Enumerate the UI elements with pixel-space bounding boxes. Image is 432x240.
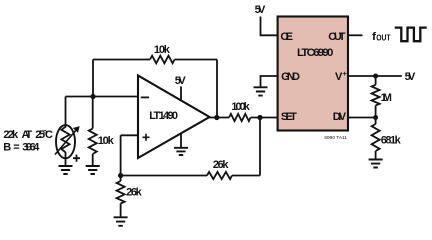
svg-text:=: = — [13, 142, 19, 154]
svg-text:SET: SET — [281, 111, 297, 123]
svg-text:100k: 100k — [231, 101, 250, 113]
svg-text:5V: 5V — [175, 75, 187, 87]
svg-text:5V: 5V — [405, 71, 416, 83]
svg-text:26k: 26k — [126, 187, 143, 199]
svg-text:1M: 1M — [381, 92, 392, 104]
svg-text:25°C: 25°C — [35, 129, 53, 141]
svg-text:OUT: OUT — [328, 31, 345, 43]
svg-text:10k: 10k — [154, 44, 171, 56]
svg-text:B: B — [3, 142, 11, 154]
svg-text:3964: 3964 — [22, 142, 40, 154]
svg-text:GND: GND — [281, 71, 300, 83]
svg-text:+: + — [343, 69, 348, 78]
svg-text:22k: 22k — [3, 129, 19, 141]
svg-text:AT: AT — [22, 129, 33, 141]
svg-text:26k: 26k — [213, 159, 229, 171]
svg-text:LT1490: LT1490 — [149, 110, 178, 122]
svg-text:6990 TA11: 6990 TA11 — [324, 135, 347, 141]
svg-text:10k: 10k — [98, 135, 115, 147]
svg-text:681k: 681k — [381, 135, 402, 147]
svg-text:OE: OE — [280, 31, 293, 43]
svg-text:5V: 5V — [255, 4, 266, 16]
svg-text:OUT: OUT — [376, 34, 390, 43]
svg-text:LTC6990: LTC6990 — [297, 47, 333, 59]
svg-text:DIV: DIV — [333, 111, 347, 123]
